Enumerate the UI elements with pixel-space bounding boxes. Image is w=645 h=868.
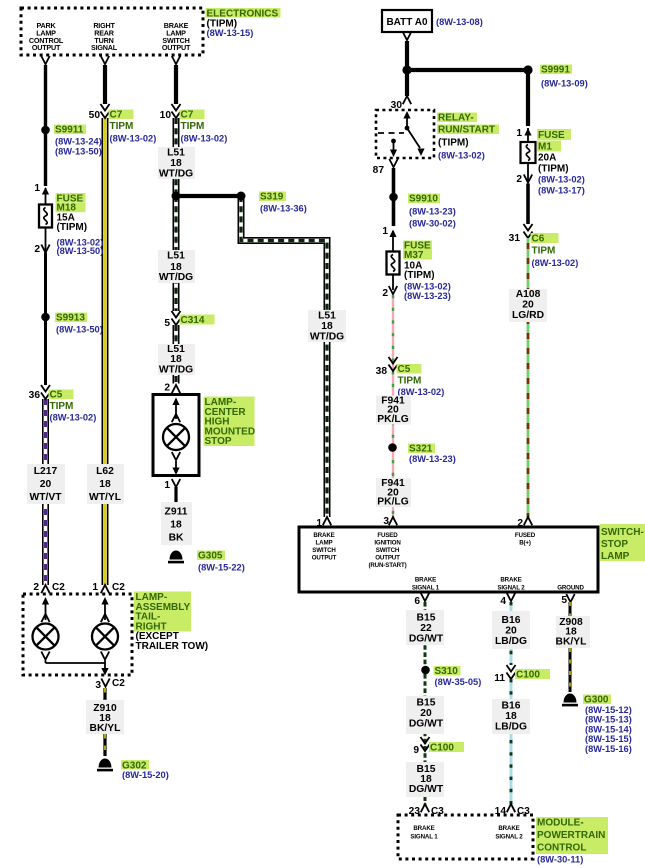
svg-text:(8W-13-50): (8W-13-50) <box>55 146 102 156</box>
tail lamp bulb right <box>92 597 118 663</box>
wire B16 LB/DG upper <box>510 602 513 665</box>
wire Z910 BK/YL <box>103 688 106 756</box>
wire battery to fuse M1 <box>526 70 530 126</box>
svg-text:B15: B15 <box>417 698 436 709</box>
connector C100 pin 9 <box>413 737 464 756</box>
wire F941 PK/LG <box>392 295 394 517</box>
svg-text:(8W-15-13): (8W-15-13) <box>585 715 632 725</box>
splice S319 bus <box>172 192 307 214</box>
connector C100 pin 11 <box>494 665 550 684</box>
svg-text:CONTROL: CONTROL <box>537 843 586 854</box>
svg-text:S9911: S9911 <box>55 125 84 136</box>
label B15 18 DG/WT <box>406 762 444 797</box>
svg-text:(8W-13-23): (8W-13-23) <box>409 454 456 464</box>
svg-text:(8W-30-11): (8W-30-11) <box>537 855 583 865</box>
svg-text:S310: S310 <box>435 666 459 677</box>
svg-text:SIGNAL 1: SIGNAL 1 <box>412 584 440 591</box>
svg-text:C7: C7 <box>110 110 123 121</box>
switch pin 5 <box>561 594 574 606</box>
svg-text:1: 1 <box>382 226 388 237</box>
svg-text:SIGNAL 2: SIGNAL 2 <box>495 834 523 841</box>
switch pin 6 <box>414 593 429 607</box>
svg-text:TIPM: TIPM <box>50 401 74 412</box>
fuse M18 pin 2 chevron <box>34 244 49 255</box>
wire relay 87 to fuse <box>392 168 396 226</box>
svg-text:SIGNAL: SIGNAL <box>91 43 118 52</box>
svg-text:OUTPUT: OUTPUT <box>162 43 191 52</box>
label B16 18 LB/DG <box>492 699 530 734</box>
svg-text:PK/LG: PK/LG <box>377 414 408 425</box>
svg-text:18: 18 <box>505 711 517 722</box>
fuse M37 <box>387 240 451 301</box>
module powertrain control box <box>398 815 533 859</box>
relay pin 30 <box>391 96 412 111</box>
svg-text:OUTPUT: OUTPUT <box>32 43 61 52</box>
fuse M18 pin 1 arrow <box>34 183 49 204</box>
svg-text:BATT A0: BATT A0 <box>386 17 428 28</box>
label B16 20 LB/DG <box>492 611 530 649</box>
svg-text:STOP: STOP <box>601 539 628 550</box>
ground G305 <box>168 551 245 573</box>
svg-text:C6: C6 <box>532 234 545 245</box>
label L51 18 WT/DG low <box>158 344 195 375</box>
svg-text:(8W-15-12): (8W-15-12) <box>585 705 632 715</box>
svg-text:SWITCH-: SWITCH- <box>601 527 644 538</box>
svg-text:DG/WT: DG/WT <box>409 719 444 730</box>
wire L62 WT/YL <box>102 118 109 585</box>
connector C5 pin 36 <box>29 385 97 423</box>
svg-text:18: 18 <box>170 158 182 169</box>
svg-text:(8W-13-15): (8W-13-15) <box>207 28 254 38</box>
module ELECTRONICS TIPM box <box>21 8 203 55</box>
svg-text:BK: BK <box>169 533 184 544</box>
svg-text:3: 3 <box>383 516 389 527</box>
fuse M37 pin 1 arrow <box>382 226 396 252</box>
svg-text:(8W-13-08): (8W-13-08) <box>436 17 483 27</box>
svg-text:38: 38 <box>376 366 388 377</box>
svg-text:WT/DG: WT/DG <box>159 169 193 180</box>
svg-text:C2: C2 <box>112 582 125 593</box>
tail lamp pin 3 C2 <box>95 678 125 691</box>
svg-text:M37: M37 <box>404 250 424 261</box>
svg-text:LAMP: LAMP <box>601 551 630 562</box>
svg-text:20: 20 <box>505 626 517 637</box>
svg-text:WT/DG: WT/DG <box>159 364 193 375</box>
connector C7 pin 10 <box>160 104 228 144</box>
svg-text:20: 20 <box>522 300 534 311</box>
label L217 20 WT/VT <box>27 464 65 504</box>
svg-text:(8W-15-20): (8W-15-20) <box>122 770 169 780</box>
svg-text:(8W-13-09): (8W-13-09) <box>541 79 588 89</box>
svg-text:(8W-13-02): (8W-13-02) <box>110 134 157 144</box>
svg-text:(8W-13-02): (8W-13-02) <box>532 258 579 268</box>
svg-text:BK/YL: BK/YL <box>556 637 587 648</box>
pin 2 lamp center <box>164 383 180 394</box>
svg-text:C2: C2 <box>112 678 125 689</box>
svg-text:(8W-15-15): (8W-15-15) <box>585 734 632 744</box>
svg-text:50: 50 <box>89 110 101 121</box>
svg-text:(TIPM): (TIPM) <box>438 138 469 149</box>
wire L51 WT/DG upper <box>173 118 180 196</box>
svg-text:31: 31 <box>509 233 521 244</box>
svg-text:OUTPUT: OUTPUT <box>312 555 337 562</box>
svg-text:5: 5 <box>561 595 567 606</box>
relay internal contacts <box>378 111 425 157</box>
fuse M37 pin 2 chevron <box>382 286 397 299</box>
svg-text:(8W-13-50): (8W-13-50) <box>57 246 104 256</box>
label L51 18 WT/DG top <box>158 147 195 180</box>
switch stop lamp box <box>299 527 598 592</box>
label Z908 18 BK/YL <box>556 616 590 648</box>
label F941 20 PK/LG upper <box>376 396 411 426</box>
svg-text:(8W-30-02): (8W-30-02) <box>409 219 456 229</box>
svg-text:B16: B16 <box>502 615 521 626</box>
connector C7 pin 50 <box>89 104 157 144</box>
wire A108 LG/RD <box>527 238 530 517</box>
ground G300 <box>562 694 632 754</box>
splice S9991 bus <box>402 65 587 89</box>
svg-text:(8W-13-02): (8W-13-02) <box>181 134 228 144</box>
svg-text:A108: A108 <box>516 289 541 300</box>
svg-text:DG/WT: DG/WT <box>409 784 444 795</box>
label F941 20 PK/LG lower <box>376 478 411 508</box>
svg-text:BK/YL: BK/YL <box>90 723 121 734</box>
wire fuse M37 pin2 stub <box>392 274 394 290</box>
wire B15 DG/WT <box>424 602 427 806</box>
wire battery feed <box>405 41 409 96</box>
svg-text:2: 2 <box>34 244 40 255</box>
svg-text:POWERTRAIN: POWERTRAIN <box>537 830 605 841</box>
svg-text:LB/DG: LB/DG <box>495 636 527 647</box>
switch pin 4 <box>500 593 515 607</box>
svg-text:(8W-15-14): (8W-15-14) <box>585 724 632 734</box>
fuse M18 <box>39 193 103 256</box>
wire L217 WT/VT <box>42 399 49 585</box>
svg-text:(8W-15-16): (8W-15-16) <box>585 744 632 754</box>
pin chevron park lamp output <box>41 56 49 64</box>
lamp center bulb <box>163 424 189 450</box>
svg-text:5: 5 <box>164 318 170 329</box>
svg-text:36: 36 <box>29 390 41 401</box>
svg-text:C100: C100 <box>430 743 454 754</box>
lamp center feed arrow <box>172 398 180 423</box>
svg-text:WT/DG: WT/DG <box>310 332 344 343</box>
svg-text:SWITCH: SWITCH <box>312 547 336 554</box>
svg-text:G305: G305 <box>198 551 223 562</box>
svg-text:18: 18 <box>321 321 333 332</box>
svg-text:S9913: S9913 <box>56 313 85 324</box>
svg-text:TRAILER TOW): TRAILER TOW) <box>136 641 209 652</box>
svg-text:(8W-15-22): (8W-15-22) <box>198 563 245 573</box>
wire L51 WT/DG lower <box>173 325 180 384</box>
svg-text:S9991: S9991 <box>541 65 570 76</box>
svg-text:TIPM: TIPM <box>532 246 556 257</box>
battery BATT A0 <box>382 10 483 32</box>
svg-text:B16: B16 <box>502 701 521 712</box>
svg-text:BRAKE: BRAKE <box>415 577 436 584</box>
svg-text:FUSED: FUSED <box>515 532 536 539</box>
svg-text:87: 87 <box>373 165 385 176</box>
splice S9911 <box>41 125 102 157</box>
svg-text:OUTPUT: OUTPUT <box>375 555 400 562</box>
svg-text:(8W-13-17): (8W-13-17) <box>538 186 585 196</box>
svg-text:(TIPM): (TIPM) <box>404 270 435 281</box>
splice S310 <box>421 666 481 687</box>
svg-text:FUSED: FUSED <box>377 532 398 539</box>
battery output chevron <box>403 32 411 40</box>
svg-text:1: 1 <box>92 582 98 593</box>
svg-text:SWITCH: SWITCH <box>376 547 400 554</box>
svg-text:2: 2 <box>164 383 170 394</box>
svg-text:C5: C5 <box>398 364 411 375</box>
svg-text:LG/RD: LG/RD <box>512 310 544 321</box>
splice S321 <box>388 443 456 464</box>
svg-text:S319: S319 <box>260 192 284 203</box>
fuse M1 <box>521 129 585 196</box>
svg-text:C5: C5 <box>50 390 63 401</box>
svg-text:C314: C314 <box>181 315 205 326</box>
label B15 20 DG/WT <box>406 696 444 734</box>
svg-text:RUN/START: RUN/START <box>438 125 495 136</box>
svg-text:22: 22 <box>420 623 432 634</box>
connector C314 pin 5 <box>164 311 214 329</box>
fuse M1 pin 1 arrow <box>516 128 531 142</box>
module lamp assembly tail right box <box>23 592 208 676</box>
svg-text:11: 11 <box>494 673 505 684</box>
wire L51 WT/DG center run <box>173 196 180 311</box>
svg-text:Z911: Z911 <box>165 507 188 518</box>
svg-text:MODULE-: MODULE- <box>537 818 584 829</box>
svg-text:RELAY-: RELAY- <box>438 113 474 124</box>
svg-text:(TIPM): (TIPM) <box>57 222 88 233</box>
svg-text:WT/VT: WT/VT <box>29 492 62 503</box>
svg-text:(8W-13-24): (8W-13-24) <box>55 137 102 147</box>
svg-text:(TIPM): (TIPM) <box>538 164 569 175</box>
svg-text:10: 10 <box>160 110 172 121</box>
wire park lamp to C5 <box>45 227 47 253</box>
label MODULE-POWERTRAIN CONTROL <box>536 817 608 865</box>
label B15 22 DG/WT <box>406 610 444 645</box>
label ELECTRONICS (TIPM) (8W-13-15) <box>206 8 281 38</box>
svg-text:(8W-13-02): (8W-13-02) <box>50 413 97 423</box>
wire Z908 BK/YL <box>569 602 572 692</box>
svg-text:20A: 20A <box>538 153 556 164</box>
svg-text:WT/DG: WT/DG <box>159 272 193 283</box>
svg-text:1: 1 <box>34 183 40 194</box>
connector C5 pin 38 <box>376 357 445 397</box>
label Z910 18 BK/YL <box>86 700 124 734</box>
svg-text:IGNITION: IGNITION <box>374 540 401 547</box>
wire brake lamp stub <box>174 65 178 104</box>
svg-text:BRAKE: BRAKE <box>313 532 334 539</box>
svg-text:1: 1 <box>516 128 522 139</box>
relay RUN/START box <box>376 110 499 161</box>
svg-text:STOP: STOP <box>205 436 232 447</box>
pin 1 lamp center <box>164 479 180 491</box>
label L51 18 WT/DG branch <box>308 310 346 343</box>
svg-text:2: 2 <box>516 174 522 185</box>
ground G302 <box>97 759 169 780</box>
svg-text:WT/YL: WT/YL <box>89 492 121 503</box>
svg-text:B(+): B(+) <box>519 540 531 547</box>
wire Z911 <box>174 487 177 545</box>
tail lamp bulb left <box>33 597 59 663</box>
fuse M1 pin 2 chevron <box>516 174 532 185</box>
svg-text:S9910: S9910 <box>409 194 438 205</box>
svg-text:LAMP: LAMP <box>316 540 333 547</box>
svg-text:C2: C2 <box>52 582 65 593</box>
svg-text:TIPM: TIPM <box>398 376 422 387</box>
svg-text:2: 2 <box>33 582 39 593</box>
svg-text:L51: L51 <box>167 148 185 159</box>
svg-text:1: 1 <box>164 480 170 491</box>
wire park lamp stub <box>44 65 47 186</box>
svg-text:PK/LG: PK/LG <box>377 497 408 508</box>
svg-text:(8W-13-50): (8W-13-50) <box>56 325 103 335</box>
wire B16 LB/DG lower <box>510 679 513 806</box>
svg-text:L217: L217 <box>34 466 58 477</box>
svg-text:SIGNAL 2: SIGNAL 2 <box>497 584 525 591</box>
pin chevron brake lamp switch output <box>172 56 180 64</box>
svg-text:BRAKE: BRAKE <box>413 825 434 832</box>
switch pin 3 <box>383 516 397 527</box>
relay pin 87 <box>373 159 398 176</box>
tail lamp pin 2 C2 <box>33 582 65 593</box>
wire S319 branch elbow <box>241 196 327 517</box>
svg-text:GROUND: GROUND <box>557 584 584 591</box>
splice S9913 <box>41 313 103 335</box>
svg-text:20: 20 <box>420 708 432 719</box>
label SWITCH-STOP LAMP <box>600 524 645 562</box>
svg-text:BRAKE: BRAKE <box>498 825 519 832</box>
svg-text:L51: L51 <box>167 251 185 262</box>
label L51 18 WT/DG mid <box>158 250 195 283</box>
lamp center return chevron <box>172 452 180 475</box>
splice S9910 <box>389 193 456 229</box>
svg-text:L62: L62 <box>96 466 114 477</box>
svg-text:(8W-35-05): (8W-35-05) <box>435 677 482 687</box>
svg-text:20: 20 <box>40 479 52 490</box>
tail lamp ground bus <box>46 663 109 676</box>
wire fuse M1 to C6 <box>527 163 529 182</box>
label Z911 18 BK <box>161 502 192 545</box>
label A108 20 LG/RD <box>509 289 547 322</box>
switch pin 1 <box>316 517 331 529</box>
svg-text:M1: M1 <box>538 142 552 153</box>
svg-text:18: 18 <box>99 479 111 490</box>
svg-text:18: 18 <box>170 520 182 531</box>
svg-text:(8W-13-02): (8W-13-02) <box>404 281 451 291</box>
svg-text:BRAKE: BRAKE <box>500 577 521 584</box>
svg-text:(8W-13-02): (8W-13-02) <box>438 151 485 161</box>
svg-text:(8W-13-36): (8W-13-36) <box>260 204 307 214</box>
tail lamp pin 1 C2 <box>92 582 125 593</box>
pcm pin 14 C3 <box>495 804 531 817</box>
svg-text:18: 18 <box>170 354 182 365</box>
svg-text:(8W-13-23): (8W-13-23) <box>409 207 456 217</box>
svg-text:3: 3 <box>95 680 101 691</box>
svg-text:FUSE: FUSE <box>538 130 565 141</box>
svg-text:L51: L51 <box>318 311 336 322</box>
svg-text:LB/DG: LB/DG <box>495 722 527 733</box>
svg-text:2: 2 <box>382 288 388 299</box>
svg-text:SIGNAL 1: SIGNAL 1 <box>410 834 438 841</box>
svg-text:C100: C100 <box>516 670 540 681</box>
switch pin 2 <box>517 517 532 529</box>
svg-text:C7: C7 <box>181 110 194 121</box>
svg-text:B15: B15 <box>417 613 436 624</box>
svg-text:TIPM: TIPM <box>181 121 205 132</box>
svg-text:4: 4 <box>500 596 506 607</box>
svg-text:(8W-13-23): (8W-13-23) <box>404 291 451 301</box>
connector C6 pin 31 <box>509 224 579 268</box>
label L62 18 WT/YL <box>87 464 124 504</box>
svg-text:6: 6 <box>414 596 420 607</box>
svg-text:DG/WT: DG/WT <box>409 634 444 645</box>
svg-text:9: 9 <box>413 745 419 756</box>
wire right rear turn stub <box>103 65 107 104</box>
pin chevron right rear turn <box>101 56 109 64</box>
svg-text:(RUN-START): (RUN-START) <box>368 562 406 569</box>
svg-text:TIPM: TIPM <box>110 121 134 132</box>
lamp center high mounted stop box <box>153 395 255 476</box>
pcm pin 23 C3 <box>409 804 445 817</box>
svg-text:(8W-13-02): (8W-13-02) <box>538 175 585 185</box>
